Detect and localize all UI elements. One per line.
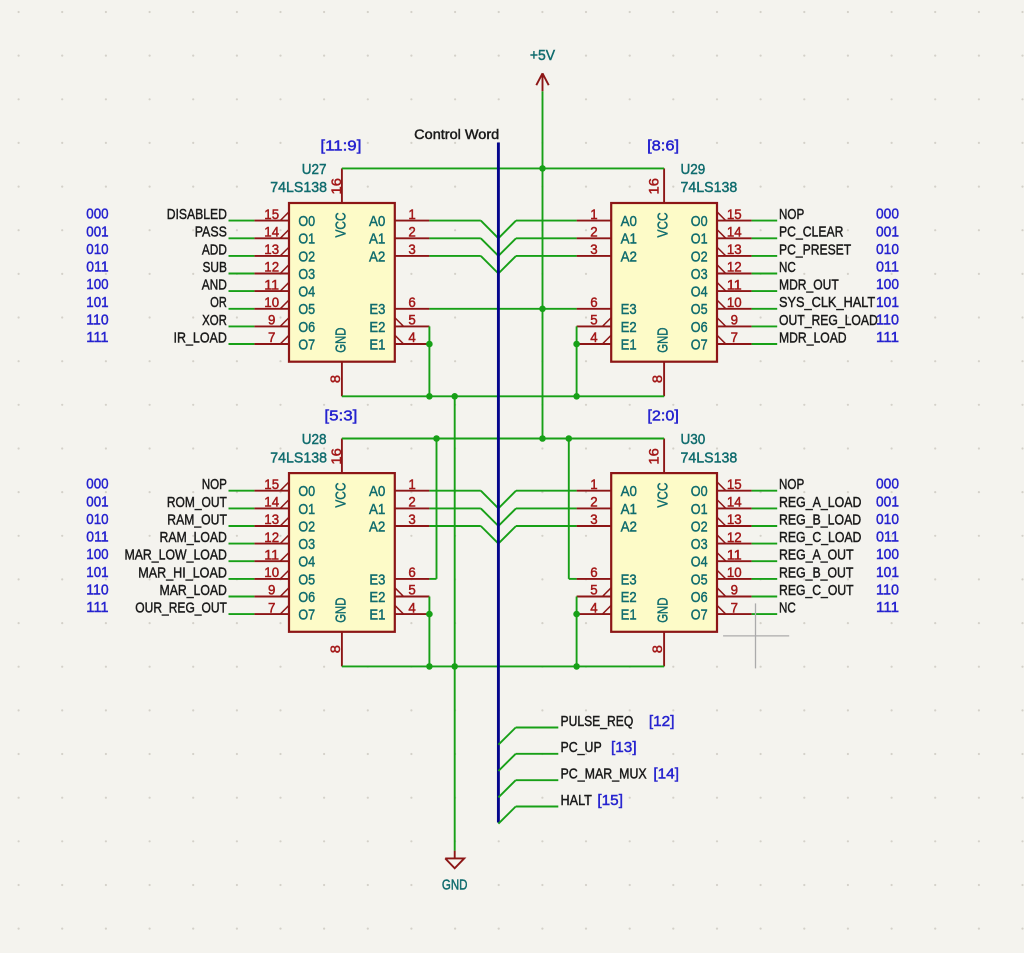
svg-text:O4: O4 <box>691 284 708 301</box>
svg-text:74LS138: 74LS138 <box>270 179 327 196</box>
svg-text:O4: O4 <box>298 284 315 301</box>
svg-text:GND: GND <box>442 877 468 894</box>
svg-text:1: 1 <box>408 207 415 222</box>
svg-text:3: 3 <box>590 242 597 257</box>
svg-text:010: 010 <box>86 241 108 258</box>
svg-text:NOP: NOP <box>779 206 804 223</box>
svg-text:+5V: +5V <box>530 47 555 64</box>
svg-text:100: 100 <box>876 276 899 293</box>
svg-text:O6: O6 <box>691 319 708 336</box>
svg-text:PC_MAR_MUX: PC_MAR_MUX <box>561 766 647 783</box>
svg-text:DISABLED: DISABLED <box>167 206 227 223</box>
svg-text:O3: O3 <box>691 536 708 553</box>
svg-text:A0: A0 <box>369 213 385 230</box>
svg-text:OUR_REG_OUT: OUR_REG_OUT <box>135 600 227 617</box>
svg-text:[2:0]: [2:0] <box>647 408 679 425</box>
svg-text:8: 8 <box>650 645 665 653</box>
svg-text:A2: A2 <box>369 518 385 535</box>
svg-text:O2: O2 <box>691 248 708 265</box>
svg-text:REG_C_OUT: REG_C_OUT <box>779 582 854 599</box>
svg-text:O7: O7 <box>298 607 315 624</box>
svg-text:111: 111 <box>876 329 899 346</box>
svg-text:O3: O3 <box>298 536 315 553</box>
svg-text:11: 11 <box>264 277 279 292</box>
svg-text:PC_UP: PC_UP <box>561 739 602 756</box>
svg-text:VCC: VCC <box>332 212 349 237</box>
svg-text:74LS138: 74LS138 <box>270 449 327 466</box>
svg-text:E1: E1 <box>621 607 637 624</box>
svg-text:O0: O0 <box>298 483 315 500</box>
svg-text:REG_B_OUT: REG_B_OUT <box>779 564 853 581</box>
svg-text:OUT_REG_LOAD: OUT_REG_LOAD <box>779 312 878 329</box>
svg-text:6: 6 <box>408 565 415 580</box>
svg-text:12: 12 <box>264 260 279 275</box>
svg-text:O2: O2 <box>298 248 315 265</box>
svg-text:O1: O1 <box>298 501 315 518</box>
svg-text:100: 100 <box>86 276 108 293</box>
svg-text:2: 2 <box>590 495 597 510</box>
svg-text:100: 100 <box>876 546 899 563</box>
svg-text:GND: GND <box>655 597 672 622</box>
svg-text:O6: O6 <box>691 589 708 606</box>
svg-text:8: 8 <box>328 645 343 653</box>
svg-text:15: 15 <box>727 477 742 492</box>
svg-text:AND: AND <box>202 277 227 294</box>
svg-text:8: 8 <box>650 375 665 383</box>
svg-text:VCC: VCC <box>655 482 672 507</box>
svg-text:NOP: NOP <box>779 476 804 493</box>
svg-text:O5: O5 <box>691 571 708 588</box>
svg-text:3: 3 <box>408 242 415 257</box>
svg-text:O5: O5 <box>298 301 315 318</box>
svg-text:A1: A1 <box>621 231 637 248</box>
svg-text:GND: GND <box>332 597 349 622</box>
svg-text:NOP: NOP <box>202 476 227 493</box>
svg-text:E3: E3 <box>621 301 637 318</box>
svg-text:010: 010 <box>876 511 899 528</box>
svg-text:Control Word: Control Word <box>414 127 499 142</box>
svg-text:6: 6 <box>590 295 597 310</box>
svg-text:ROM_OUT: ROM_OUT <box>167 494 227 511</box>
svg-text:SUB: SUB <box>203 259 227 276</box>
svg-text:O7: O7 <box>691 336 708 353</box>
svg-text:011: 011 <box>86 259 108 276</box>
svg-text:O6: O6 <box>298 589 315 606</box>
svg-text:7: 7 <box>731 600 738 615</box>
svg-text:1: 1 <box>408 477 415 492</box>
svg-text:1: 1 <box>590 207 597 222</box>
svg-text:101: 101 <box>876 564 899 581</box>
svg-text:14: 14 <box>727 225 742 240</box>
svg-text:A0: A0 <box>369 483 385 500</box>
svg-text:[14]: [14] <box>653 766 679 783</box>
svg-text:IR_LOAD: IR_LOAD <box>174 329 228 346</box>
svg-text:9: 9 <box>268 583 275 598</box>
svg-text:101: 101 <box>86 294 108 311</box>
svg-text:VCC: VCC <box>655 212 672 237</box>
svg-text:SYS_CLK_HALT: SYS_CLK_HALT <box>779 294 875 311</box>
svg-text:10: 10 <box>727 295 742 310</box>
svg-text:A0: A0 <box>621 213 637 230</box>
svg-text:4: 4 <box>590 330 598 345</box>
svg-text:001: 001 <box>86 493 108 510</box>
svg-text:011: 011 <box>876 529 899 546</box>
svg-text:REG_C_LOAD: REG_C_LOAD <box>779 529 862 546</box>
svg-text:VCC: VCC <box>332 482 349 507</box>
svg-text:O0: O0 <box>691 483 708 500</box>
svg-text:U29: U29 <box>681 161 706 178</box>
svg-text:E3: E3 <box>369 301 385 318</box>
svg-text:O2: O2 <box>298 518 315 535</box>
svg-text:O7: O7 <box>691 607 708 624</box>
svg-text:101: 101 <box>86 564 108 581</box>
svg-text:000: 000 <box>876 206 899 223</box>
svg-text:REG_A_LOAD: REG_A_LOAD <box>779 494 862 511</box>
svg-text:001: 001 <box>86 223 108 240</box>
svg-text:16: 16 <box>647 178 662 194</box>
svg-text:13: 13 <box>727 242 742 257</box>
svg-text:NC: NC <box>779 600 796 617</box>
svg-text:[5:3]: [5:3] <box>324 408 357 425</box>
svg-text:HALT: HALT <box>561 792 592 809</box>
svg-text:O7: O7 <box>298 336 315 353</box>
svg-text:MDR_OUT: MDR_OUT <box>779 277 839 294</box>
svg-text:12: 12 <box>727 530 742 545</box>
svg-text:E2: E2 <box>369 589 385 606</box>
svg-text:RAM_LOAD: RAM_LOAD <box>160 529 228 546</box>
svg-text:2: 2 <box>408 225 415 240</box>
svg-text:NC: NC <box>779 259 796 276</box>
svg-text:10: 10 <box>264 565 279 580</box>
svg-text:011: 011 <box>876 259 899 276</box>
svg-text:O2: O2 <box>691 518 708 535</box>
svg-text:O1: O1 <box>691 231 708 248</box>
svg-text:5: 5 <box>408 313 415 328</box>
svg-text:REG_A_OUT: REG_A_OUT <box>779 547 854 564</box>
svg-text:010: 010 <box>876 241 899 258</box>
svg-text:5: 5 <box>590 583 597 598</box>
svg-text:U30: U30 <box>681 431 706 448</box>
svg-text:12: 12 <box>727 260 742 275</box>
svg-text:MAR_HI_LOAD: MAR_HI_LOAD <box>138 564 227 581</box>
svg-text:[13]: [13] <box>611 739 637 756</box>
svg-text:ADD: ADD <box>202 241 227 258</box>
svg-text:1: 1 <box>590 477 597 492</box>
svg-text:9: 9 <box>731 583 738 598</box>
svg-text:MAR_LOAD: MAR_LOAD <box>160 582 228 599</box>
svg-text:[15]: [15] <box>597 792 623 809</box>
svg-text:A1: A1 <box>369 231 385 248</box>
svg-text:110: 110 <box>86 582 108 599</box>
svg-text:16: 16 <box>647 448 662 464</box>
svg-text:6: 6 <box>590 565 597 580</box>
svg-text:O4: O4 <box>298 554 315 571</box>
svg-text:U27: U27 <box>302 161 327 178</box>
svg-text:O5: O5 <box>298 571 315 588</box>
svg-text:11: 11 <box>727 277 742 292</box>
svg-text:010: 010 <box>86 511 108 528</box>
svg-text:O3: O3 <box>298 266 315 283</box>
svg-text:13: 13 <box>264 242 279 257</box>
svg-text:E2: E2 <box>621 319 637 336</box>
svg-text:6: 6 <box>408 295 415 310</box>
svg-text:3: 3 <box>590 512 597 527</box>
svg-text:10: 10 <box>264 295 279 310</box>
svg-text:001: 001 <box>876 223 899 240</box>
svg-text:111: 111 <box>86 329 108 346</box>
svg-text:15: 15 <box>727 207 742 222</box>
svg-text:[11:9]: [11:9] <box>320 138 361 155</box>
svg-text:E1: E1 <box>621 336 637 353</box>
svg-text:001: 001 <box>876 493 899 510</box>
svg-text:O4: O4 <box>691 554 708 571</box>
svg-text:4: 4 <box>408 600 416 615</box>
svg-text:[12]: [12] <box>649 713 675 730</box>
svg-text:PC_CLEAR: PC_CLEAR <box>779 224 844 241</box>
svg-text:15: 15 <box>264 477 279 492</box>
svg-text:O3: O3 <box>691 266 708 283</box>
svg-text:A2: A2 <box>621 248 637 265</box>
svg-text:RAM_OUT: RAM_OUT <box>167 511 227 528</box>
svg-text:011: 011 <box>86 529 108 546</box>
svg-text:15: 15 <box>264 207 279 222</box>
svg-text:111: 111 <box>876 599 899 616</box>
svg-text:000: 000 <box>86 476 108 493</box>
svg-text:13: 13 <box>264 512 279 527</box>
svg-text:A1: A1 <box>621 501 637 518</box>
svg-text:E3: E3 <box>369 571 385 588</box>
svg-text:GND: GND <box>655 327 672 352</box>
svg-text:O1: O1 <box>298 231 315 248</box>
svg-text:2: 2 <box>590 225 597 240</box>
svg-text:74LS138: 74LS138 <box>681 449 738 466</box>
svg-text:111: 111 <box>86 599 108 616</box>
svg-text:5: 5 <box>590 313 597 328</box>
svg-text:101: 101 <box>876 294 899 311</box>
svg-text:MDR_LOAD: MDR_LOAD <box>779 329 847 346</box>
svg-text:O5: O5 <box>691 301 708 318</box>
svg-text:O0: O0 <box>298 213 315 230</box>
svg-text:11: 11 <box>727 548 742 563</box>
svg-text:8: 8 <box>328 375 343 383</box>
svg-text:4: 4 <box>408 330 416 345</box>
svg-text:13: 13 <box>727 512 742 527</box>
svg-text:A2: A2 <box>369 248 385 265</box>
svg-text:[8:6]: [8:6] <box>647 138 679 155</box>
svg-text:110: 110 <box>876 311 899 328</box>
svg-text:E2: E2 <box>369 319 385 336</box>
svg-text:A1: A1 <box>369 501 385 518</box>
svg-text:A0: A0 <box>621 483 637 500</box>
svg-text:74LS138: 74LS138 <box>681 179 738 196</box>
svg-text:PASS: PASS <box>195 224 227 241</box>
svg-text:7: 7 <box>268 330 275 345</box>
svg-text:O0: O0 <box>691 213 708 230</box>
svg-text:E2: E2 <box>621 589 637 606</box>
svg-text:11: 11 <box>264 548 279 563</box>
svg-text:14: 14 <box>727 495 742 510</box>
svg-text:E3: E3 <box>621 571 637 588</box>
svg-text:10: 10 <box>727 565 742 580</box>
svg-text:U28: U28 <box>302 431 327 448</box>
svg-text:3: 3 <box>408 512 415 527</box>
svg-text:9: 9 <box>731 313 738 328</box>
svg-text:000: 000 <box>876 476 899 493</box>
svg-text:14: 14 <box>264 225 279 240</box>
svg-text:2: 2 <box>408 495 415 510</box>
svg-text:O6: O6 <box>298 319 315 336</box>
svg-text:7: 7 <box>731 330 738 345</box>
svg-text:PC_PRESET: PC_PRESET <box>779 241 851 258</box>
svg-text:12: 12 <box>264 530 279 545</box>
svg-text:E1: E1 <box>369 336 385 353</box>
svg-text:9: 9 <box>268 313 275 328</box>
svg-text:E1: E1 <box>369 607 385 624</box>
svg-text:MAR_LOW_LOAD: MAR_LOW_LOAD <box>125 547 228 564</box>
svg-text:XOR: XOR <box>202 312 227 329</box>
svg-text:100: 100 <box>86 546 108 563</box>
svg-text:7: 7 <box>268 600 275 615</box>
svg-text:O1: O1 <box>691 501 708 518</box>
svg-text:5: 5 <box>408 583 415 598</box>
svg-text:110: 110 <box>86 311 108 328</box>
svg-text:OR: OR <box>210 294 227 311</box>
svg-text:14: 14 <box>264 495 279 510</box>
svg-text:GND: GND <box>332 327 349 352</box>
svg-text:A2: A2 <box>621 518 637 535</box>
svg-text:REG_B_LOAD: REG_B_LOAD <box>779 511 861 528</box>
svg-text:110: 110 <box>876 582 899 599</box>
svg-text:000: 000 <box>86 206 108 223</box>
svg-text:4: 4 <box>590 600 598 615</box>
svg-text:PULSE_REQ: PULSE_REQ <box>561 713 634 730</box>
